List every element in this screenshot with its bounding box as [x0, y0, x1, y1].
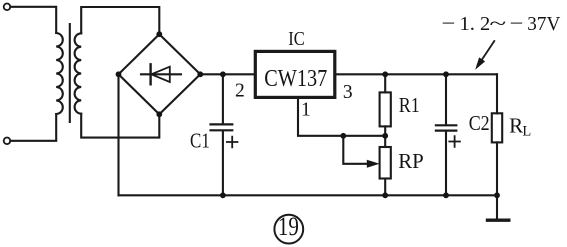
- junction C1 top: [220, 71, 226, 77]
- potentiometer RP body: [380, 147, 391, 179]
- wiper arrowhead: [367, 160, 380, 168]
- junction wiper: [340, 133, 346, 139]
- load resistor RL body: [492, 113, 502, 142]
- svg-text:R1: R1: [399, 93, 420, 117]
- capacitor C1 bottom lead: [222, 131, 224, 195]
- terminal top-left: [4, 4, 11, 11]
- ground stub: [496, 195, 498, 219]
- wiper wire to RP: [343, 136, 368, 164]
- ground bar: [488, 218, 509, 221]
- wire primary bottom: [10, 114, 56, 141]
- diode triangle: [151, 67, 170, 82]
- svg-text:R: R: [509, 114, 523, 138]
- svg-text:C2: C2: [469, 111, 490, 135]
- junction R1 top: [382, 71, 388, 77]
- svg-text:L: L: [522, 123, 531, 139]
- junction bridge left: [116, 71, 122, 77]
- transformer primary winding T1: [56, 33, 63, 114]
- capacitor C1 top lead: [222, 74, 224, 123]
- junction R1 bottom: [382, 133, 388, 139]
- output voltage label: [442, 12, 561, 35]
- capacitor C2 plates: [436, 124, 456, 126]
- IC box U1 CW137: [255, 51, 334, 97]
- capacitor C2 bottom lead: [445, 132, 447, 196]
- svg-text:CW137: CW137: [264, 66, 327, 92]
- svg-text:2: 2: [235, 81, 245, 102]
- resistor R1 bottom lead: [384, 126, 386, 135]
- wire IC pin1 down: [298, 97, 385, 135]
- capacitor C2 top lead: [445, 74, 447, 124]
- terminal bottom-left: [4, 138, 11, 145]
- wire secondary bottom to bridge bottom: [81, 114, 159, 138]
- svg-text:−: −: [442, 12, 456, 35]
- output pointer arrowhead: [475, 57, 485, 69]
- output pointer arrow line: [482, 41, 495, 60]
- junction RP bottom: [382, 192, 388, 198]
- capacitor C1 plates: [211, 123, 233, 125]
- svg-text:~: ~: [490, 12, 507, 35]
- resistor R1 body: [380, 92, 391, 126]
- junction bridge bottom: [156, 111, 162, 117]
- diode cathode bar: [149, 64, 151, 84]
- svg-text:C1: C1: [190, 128, 210, 152]
- svg-text:3: 3: [343, 82, 353, 103]
- potentiometer RP bottom lead: [384, 179, 386, 196]
- svg-text:37V: 37V: [527, 13, 560, 35]
- svg-text:1.: 1.: [460, 13, 475, 35]
- junction bridge top: [156, 31, 162, 37]
- C1 plus sign: [227, 137, 238, 148]
- transformer core: [69, 24, 71, 122]
- svg-text:RP: RP: [398, 149, 424, 173]
- wire bridge right to IC pin2: [200, 73, 255, 75]
- wire primary top: [10, 7, 56, 33]
- wire IC pin3 output rail: [335, 73, 497, 75]
- junction RL bottom: [494, 192, 500, 198]
- figure number circle: [274, 215, 303, 244]
- junction bridge right: [197, 71, 203, 77]
- load resistor RL bottom lead: [496, 142, 498, 195]
- resistor R1 top lead: [384, 74, 386, 92]
- svg-text:IC: IC: [288, 29, 305, 50]
- svg-text:1: 1: [301, 100, 311, 121]
- wire secondary top to bridge top: [81, 7, 159, 34]
- junction C2 top: [443, 71, 449, 77]
- svg-text:−: −: [510, 12, 524, 35]
- load resistor RL top lead: [496, 74, 498, 113]
- junction C2 bottom: [443, 192, 449, 198]
- transformer secondary winding: [75, 33, 82, 113]
- svg-text:19: 19: [278, 212, 299, 241]
- bottom rail: [119, 194, 498, 196]
- C2 plus sign: [449, 136, 460, 147]
- bridge rectifier diamond: [119, 34, 201, 114]
- wire bridge left down to bottom rail: [117, 74, 119, 195]
- junction C1 bottom: [220, 192, 226, 198]
- diode lead: [141, 73, 181, 75]
- potentiometer RP top lead: [384, 136, 386, 147]
